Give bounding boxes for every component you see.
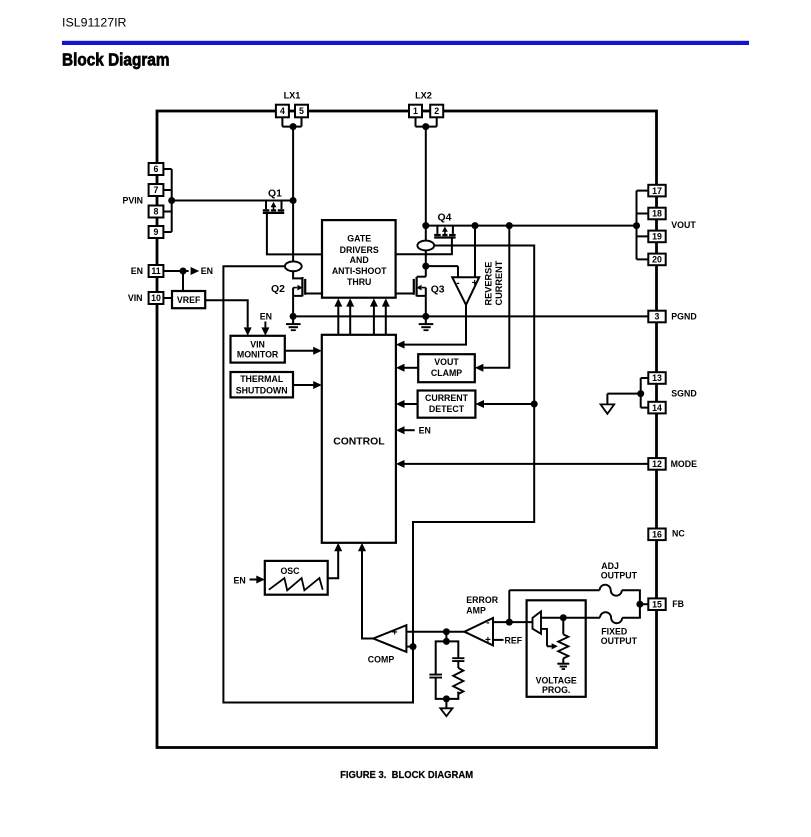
node LX2 at VOUT rail [422, 222, 429, 229]
node error amp output tap [443, 628, 450, 635]
resistor R1 zigzag [453, 668, 463, 694]
svg-text:7: 7 [154, 185, 159, 195]
svg-text:EN: EN [234, 576, 246, 586]
wire comp network left branch [436, 641, 447, 699]
pin 11 [149, 265, 164, 277]
svg-text:GATE: GATE [347, 234, 371, 244]
arrow reverse current into control [396, 341, 405, 349]
svg-text:VREF: VREF [177, 295, 201, 305]
current detect block [418, 391, 476, 418]
svg-text:17: 17 [652, 186, 662, 196]
svg-text:REVERSE: REVERSE [483, 262, 493, 306]
svg-text:13: 13 [652, 373, 662, 383]
svg-text:18: 18 [652, 209, 662, 219]
svg-text:Q1: Q1 [268, 189, 282, 200]
svg-text:EN: EN [201, 266, 213, 276]
node SGND bracket [637, 390, 644, 397]
pin 2 [430, 105, 443, 118]
svg-text:LX1: LX1 [284, 91, 301, 101]
resistor R2 programmable divider zigzag [558, 634, 568, 658]
capacitor C1 plates [429, 675, 442, 678]
pin 4 [276, 105, 289, 118]
svg-text:AMP: AMP [466, 605, 486, 615]
svg-text:NC: NC [672, 529, 685, 539]
oscillator sawtooth waveform [269, 578, 323, 590]
IC boundary rectangle [157, 111, 657, 748]
svg-text:PVIN: PVIN [122, 196, 143, 206]
svg-text:12: 12 [652, 459, 662, 469]
capacitor C2 plates [452, 658, 464, 661]
svg-text:3: 3 [655, 312, 660, 322]
arrow current detect into control [396, 400, 405, 408]
svg-text:VIN: VIN [128, 293, 143, 303]
pin 17 [648, 185, 665, 197]
pin 1 [409, 105, 422, 118]
wire comp network stem [445, 632, 447, 642]
svg-text:THERMAL: THERMAL [240, 374, 284, 384]
node VOUT bracket [633, 222, 640, 229]
svg-text:14: 14 [652, 403, 662, 413]
arrow COMP into control [358, 543, 366, 551]
wire REF stub to error amp plus [493, 639, 504, 641]
ground symbol Q2 source (PGND) [286, 316, 301, 330]
wire gate driver arrows from control [338, 302, 386, 335]
svg-text:SHUTDOWN: SHUTDOWN [236, 386, 288, 396]
wire current detect input [484, 403, 534, 405]
node comp network ground join [443, 695, 450, 702]
vout clamp block [418, 354, 475, 382]
svg-text:ISL91127IR: ISL91127IR [62, 18, 127, 30]
svg-text:OUTPUT: OUTPUT [601, 571, 638, 581]
wire divider ground stem [562, 658, 564, 663]
pin 9 [149, 226, 164, 238]
arrow VIN MONITOR into control [313, 347, 322, 355]
svg-text:2: 2 [434, 106, 439, 116]
arrow into vout clamp [475, 364, 484, 372]
pin 20 [648, 254, 665, 266]
wire THERMAL SHUTDOWN output arrow line [293, 384, 313, 386]
thermal shutdown block [231, 372, 294, 397]
wire osc output to control [328, 547, 339, 579]
arrow EN out of pin 11 [191, 267, 200, 275]
svg-text:COMP: COMP [368, 655, 395, 665]
svg-text:Q2: Q2 [271, 284, 285, 295]
wire Q1 gate to gate drivers [267, 213, 322, 255]
arrow into current detect [475, 400, 484, 408]
node Q2 source PGND [290, 313, 297, 320]
arrow gate drive 4 [382, 298, 390, 306]
wire reverse current plus input [474, 226, 476, 277]
ground symbol Q3 source (PGND) [419, 316, 434, 330]
svg-text:-: - [393, 642, 396, 653]
wire osc EN arrow line [250, 579, 258, 581]
pin 8 [149, 206, 164, 218]
wire PVIN rail to Q1/LX1 [172, 200, 293, 202]
svg-text:1: 1 [413, 106, 418, 116]
pin 7 [149, 184, 164, 196]
arrow THERMAL SHUTDOWN into control [313, 381, 322, 389]
transistor Q2 (NMOS low side 1) [293, 271, 305, 316]
svg-text:8: 8 [154, 207, 159, 217]
svg-text:10: 10 [151, 293, 161, 303]
wire error amp minus node [493, 621, 533, 623]
svg-text:SGND: SGND [671, 388, 696, 398]
pin 14 [648, 402, 665, 414]
svg-text:FIGURE 3. BLOCK DIAGRAM: FIGURE 3. BLOCK DIAGRAM [340, 770, 473, 781]
ground symbol comp network (open triangle) [440, 708, 452, 716]
pin 10 [149, 292, 164, 304]
wire FIXED to FB junction [622, 604, 640, 618]
wire vout clamp input from VOUT rail [484, 226, 510, 368]
pin 15 [648, 598, 665, 610]
node Q1 drain at LX1 [290, 197, 297, 204]
svg-text:5: 5 [299, 106, 304, 116]
arrow MODE into control [396, 460, 405, 468]
osc block [265, 561, 328, 595]
wire vout clamp output to control [405, 367, 419, 369]
wire reverse current output to control [405, 305, 467, 345]
svg-text:REF: REF [505, 635, 523, 645]
svg-text:AND: AND [350, 255, 369, 265]
arrow DAC wiper into divider [552, 643, 558, 649]
svg-text:MONITOR: MONITOR [237, 350, 279, 360]
wire EN pin to junction and down to VREF [163, 271, 188, 291]
transistor Q1 (PMOS, PVIN to LX1) [263, 201, 284, 213]
svg-text:VIN: VIN [250, 340, 265, 350]
svg-text:CONTROL: CONTROL [333, 437, 385, 448]
node EN split [180, 268, 187, 275]
svg-text:THRU: THRU [347, 277, 371, 287]
svg-text:VOUT: VOUT [434, 357, 459, 367]
wire comp network right branch [446, 641, 458, 699]
wire VOUT rail [426, 225, 637, 227]
wire PVIN pin bracket [163, 169, 171, 232]
wire FIXED output line [541, 617, 600, 619]
svg-text:VOUT: VOUT [671, 220, 696, 230]
transistor Q3 (NMOS low side 2) [414, 277, 426, 317]
pin 16 [648, 529, 665, 541]
node vout clamp tap [506, 222, 513, 229]
svg-text:LX2: LX2 [415, 91, 432, 101]
svg-text:15: 15 [652, 599, 662, 609]
node divider top [560, 614, 567, 621]
arrow EN into control [396, 426, 405, 434]
pin 6 [149, 163, 164, 175]
wire SGND pin bracket [641, 378, 649, 408]
svg-text:DRIVERS: DRIVERS [340, 245, 379, 255]
svg-text:19: 19 [652, 232, 662, 242]
vref block [172, 291, 205, 308]
current sense element LX2 leg [417, 241, 434, 251]
svg-text:EN: EN [131, 266, 143, 276]
svg-text:EN: EN [419, 425, 431, 435]
current sense element LX1 leg [285, 261, 302, 271]
vin monitor block [231, 336, 285, 363]
svg-text:11: 11 [151, 266, 160, 276]
node reverse current plus tap [472, 222, 479, 229]
wire Q4 gate to gate drivers [396, 237, 452, 254]
op-amp COMP comparator [373, 625, 406, 652]
wire error amp minus to ADJ line [508, 590, 510, 622]
ground symbol voltage divider [557, 664, 569, 669]
svg-text:-: - [456, 278, 459, 289]
node comp minus tap [410, 643, 417, 650]
wire Q3 gate to gate drivers [396, 293, 414, 295]
svg-text:+: + [472, 278, 478, 289]
gate drivers block U-GD [322, 220, 396, 298]
wire FB pin to junction [640, 603, 648, 605]
node PVIN bracket [168, 197, 175, 204]
arrow EN into OSC [256, 576, 265, 584]
wire LX1 pin stubs and join [282, 117, 301, 126]
ADJ option squiggle [600, 585, 622, 596]
node FB junction [636, 601, 643, 608]
wire SGND to ground [607, 394, 640, 405]
wire LX1 node vertical [292, 127, 294, 262]
arrow gate drive 1 [334, 298, 342, 306]
control block [322, 335, 396, 543]
node LX1 pin join [290, 123, 297, 130]
pin 12 [648, 458, 665, 470]
wire error amp output to comp plus [406, 631, 464, 633]
svg-text:4: 4 [280, 106, 285, 116]
wire divider top [562, 618, 564, 635]
wire current detect output to control [405, 403, 418, 405]
svg-text:PROG.: PROG. [542, 685, 570, 695]
op-amp error amplifier [464, 618, 493, 645]
wire current sense loop [223, 246, 534, 703]
wire ADJ to FB junction [622, 590, 640, 604]
svg-text:16: 16 [652, 530, 662, 540]
wire PGND rail [293, 315, 648, 317]
wire ADJ output line [509, 589, 599, 591]
svg-text:20: 20 [652, 255, 662, 265]
svg-text:Q4: Q4 [438, 213, 452, 224]
wire MODE pin to control [405, 463, 649, 465]
svg-text:ANTI-SHOOT: ANTI-SHOOT [332, 266, 387, 276]
pin 18 [648, 208, 665, 220]
svg-text:CURRENT: CURRENT [425, 393, 469, 403]
wire comp output to control [362, 547, 373, 639]
wire reverse current minus input [426, 266, 458, 277]
wire comp minus to sense line [406, 646, 413, 648]
svg-text:OSC: OSC [280, 566, 300, 576]
header blue rule [62, 41, 749, 45]
svg-text:VOLTAGE: VOLTAGE [536, 675, 577, 685]
svg-text:CURRENT: CURRENT [494, 260, 504, 305]
svg-text:Q3: Q3 [431, 285, 445, 296]
node error amp minus [506, 619, 513, 626]
svg-text:Block Diagram: Block Diagram [62, 49, 170, 69]
wire Q2 gate to gate drivers [305, 293, 322, 295]
svg-text:CLAMP: CLAMP [431, 368, 462, 378]
svg-text:FB: FB [672, 599, 684, 609]
arrow EN into VIN MONITOR [261, 327, 269, 335]
svg-text:6: 6 [154, 164, 159, 174]
wire LX2 pin stubs and join [416, 117, 437, 126]
wire EN into control [405, 429, 415, 431]
svg-text:PGND: PGND [671, 312, 696, 322]
DAC symbol in voltage prog [533, 611, 542, 633]
arrow gate drive 2 [346, 298, 354, 306]
svg-text:EN: EN [260, 311, 272, 321]
node LX2 pin join [422, 123, 429, 130]
svg-text:-: - [486, 618, 489, 629]
wire VREF output to VIN MONITOR [205, 300, 248, 327]
svg-text:ERROR: ERROR [466, 595, 498, 605]
svg-text:9: 9 [154, 227, 159, 237]
node comp network split [443, 638, 450, 645]
wire EN into VIN MONITOR [264, 322, 266, 328]
wire comp network ground stem [445, 699, 447, 708]
svg-text:+: + [485, 635, 491, 646]
pin 13 [648, 372, 665, 384]
transistor Q4 (PMOS, LX2 to VOUT) [434, 226, 455, 238]
svg-text:+: + [392, 628, 398, 639]
op-amp reverse current comparator [452, 277, 479, 305]
ground symbol SGND (open triangle) [601, 404, 615, 413]
arrow gate drive 3 [370, 298, 378, 306]
svg-text:OUTPUT: OUTPUT [601, 636, 638, 646]
arrow vout clamp into control [396, 364, 405, 372]
pin 5 [295, 105, 308, 118]
arrow OSC into control [334, 543, 342, 551]
node current detect tap [531, 401, 538, 408]
pin 3 [648, 311, 665, 323]
wire DAC wiper arm [541, 629, 552, 646]
wire LX2 node vertical [425, 127, 427, 277]
node reverse current minus tap [422, 263, 429, 270]
node Q3 source PGND [422, 313, 429, 320]
svg-text:MODE: MODE [671, 459, 698, 469]
voltage prog block [527, 600, 586, 697]
arrow VREF into VIN MONITOR [244, 327, 252, 335]
wire VIN MONITOR output arrow line [285, 350, 314, 352]
pin 19 [648, 231, 665, 243]
svg-text:DETECT: DETECT [429, 404, 465, 414]
FIXED option squiggle [600, 612, 622, 623]
wire VOUT pin bracket [637, 191, 649, 260]
wire VIN pin to VREF [163, 297, 172, 299]
